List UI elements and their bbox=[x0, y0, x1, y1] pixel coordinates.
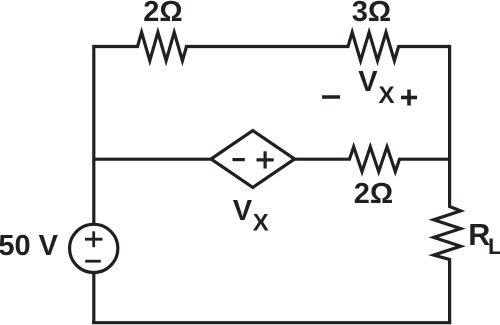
svg-text:2Ω: 2Ω bbox=[354, 178, 393, 210]
svg-text:2Ω: 2Ω bbox=[143, 0, 182, 28]
svg-text:X: X bbox=[379, 82, 395, 109]
svg-text:3Ω: 3Ω bbox=[352, 0, 391, 28]
svg-text:R: R bbox=[468, 218, 490, 252]
svg-text:L: L bbox=[488, 234, 500, 259]
svg-text:V: V bbox=[233, 195, 253, 227]
svg-text:50 V: 50 V bbox=[0, 230, 59, 262]
svg-text:V: V bbox=[358, 66, 378, 98]
svg-text:X: X bbox=[253, 210, 269, 237]
